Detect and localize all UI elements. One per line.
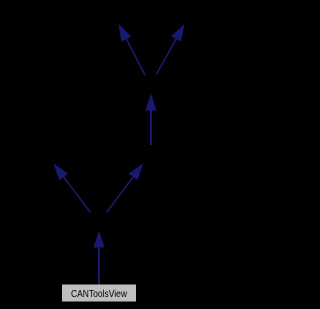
arrowhead bbox=[171, 24, 184, 42]
wire bbox=[62, 175, 91, 213]
wire bbox=[107, 175, 135, 213]
inheritance edge: top-left diagonal bbox=[119, 24, 146, 75]
inheritance edge: up-left diagonal (middle tier) bbox=[54, 164, 91, 213]
wire bbox=[156, 36, 177, 74]
arrowhead bbox=[54, 164, 69, 181]
arrowhead bbox=[119, 24, 132, 42]
svg-text:CANToolsView: CANToolsView bbox=[71, 289, 128, 300]
node CANToolsView (current class, grey box) bbox=[62, 285, 136, 302]
inheritance edge: CANToolsView -> hidden base (lower vertical arrow) bbox=[93, 231, 104, 285]
inheritance edge: right vertical arrow (upper middle) bbox=[145, 94, 156, 146]
inheritance edge: top-right diagonal bbox=[156, 24, 184, 75]
wire bbox=[150, 108, 152, 146]
arrowhead bbox=[93, 231, 104, 248]
inheritance edge: up-right diagonal (middle tier) bbox=[107, 163, 144, 212]
wire bbox=[98, 244, 100, 285]
arrowhead bbox=[145, 94, 156, 111]
wire bbox=[125, 36, 145, 75]
arrowhead bbox=[129, 163, 144, 180]
